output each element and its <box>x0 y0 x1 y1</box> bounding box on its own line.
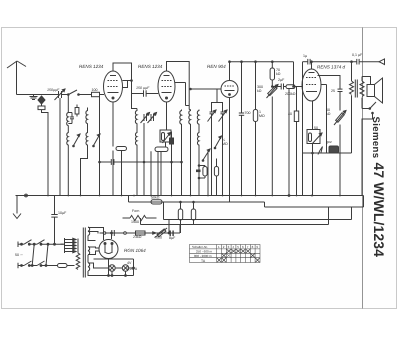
wire anode feed <box>111 232 113 239</box>
wire V2 top cap <box>167 62 190 110</box>
wire pill tap down <box>288 89 290 196</box>
wire <box>42 110 49 196</box>
table digits <box>218 245 258 249</box>
dropper resistor a <box>178 201 182 233</box>
band filter coil upper <box>135 109 137 126</box>
wire V1 top cap <box>113 63 132 81</box>
output transformer core <box>355 80 357 98</box>
padding capacitor <box>68 113 74 124</box>
tube V2 RENS1234 envelope <box>158 71 175 102</box>
resistor 40 right <box>294 87 298 196</box>
transformer core <box>83 228 85 278</box>
svg-text:150µµF: 150µµF <box>47 88 60 92</box>
wire <box>222 121 224 196</box>
anode cap 25 <box>318 76 343 111</box>
secondary winding HT <box>88 227 90 235</box>
wire <box>132 94 138 109</box>
wire cathode drop <box>99 95 101 196</box>
IF switch arrow <box>202 149 210 161</box>
svg-text:0,1 µF: 0,1 µF <box>352 53 363 57</box>
junction <box>311 61 313 63</box>
grid resistor 200k pill <box>284 85 303 89</box>
coil L3 <box>67 131 69 147</box>
svg-text:47 W/WL/1234: 47 W/WL/1234 <box>371 163 387 258</box>
wire <box>150 151 152 195</box>
resistor 1M vertical <box>253 62 257 196</box>
wire <box>212 103 223 107</box>
resistor 50k pill on bus <box>151 200 162 204</box>
smoothing cap 10uF <box>51 196 57 245</box>
svg-text:0,22 A: 0,22 A <box>127 267 138 271</box>
wire <box>132 81 135 94</box>
svg-text:RENS 1374 d: RENS 1374 d <box>317 65 346 70</box>
top bus mid <box>230 61 294 63</box>
arrow <box>148 232 157 234</box>
antenna coil L1 <box>67 111 69 127</box>
svg-text:50: 50 <box>314 126 318 130</box>
switch arrow L3 <box>73 134 80 147</box>
wire <box>302 101 304 196</box>
resistor 70k <box>270 62 274 86</box>
ground bus <box>16 195 364 197</box>
resistor 23k <box>136 231 146 235</box>
antenna coil L2 <box>86 108 88 127</box>
svg-text:40: 40 <box>288 112 292 116</box>
secondary winding rect fil <box>88 247 90 255</box>
coil L4 <box>86 131 88 147</box>
pilot lamp 2 <box>122 265 128 271</box>
junction <box>272 61 274 63</box>
trimmer capacitor 150uuF <box>55 89 66 196</box>
wire <box>181 126 183 196</box>
svg-text:4V: 4V <box>127 261 132 265</box>
top bus right w/ caps <box>303 59 381 65</box>
pill resistor 20k <box>116 147 127 151</box>
svg-text:50kΩ: 50kΩ <box>151 196 160 200</box>
svg-text:700: 700 <box>245 111 251 115</box>
wire V3 top <box>229 62 231 81</box>
svg-text:100: 100 <box>92 88 98 92</box>
junction <box>351 61 353 63</box>
AVC line <box>99 159 183 165</box>
cap 8uF <box>170 231 173 237</box>
svg-text:800 - 2000 m: 800 - 2000 m <box>194 254 212 258</box>
svg-text:25: 25 <box>331 89 335 93</box>
svg-text:MΩ: MΩ <box>222 142 228 146</box>
wire <box>87 127 89 131</box>
tube V4 internals <box>306 73 317 92</box>
wire screen tap <box>302 62 304 101</box>
wire grid drop <box>67 95 69 111</box>
grid cap 2uF <box>272 84 283 90</box>
svg-text:Schalter-Nr.: Schalter-Nr. <box>192 245 208 249</box>
wire <box>185 83 187 106</box>
wire <box>157 151 159 195</box>
headphone block gez <box>329 146 339 153</box>
quarter megohm switch arrow <box>214 136 221 149</box>
svg-text:RGN 1064: RGN 1064 <box>124 248 146 253</box>
wire <box>190 88 192 90</box>
wire right mid horizontal <box>303 152 352 154</box>
wire <box>81 147 88 196</box>
svg-text:4000: 4000 <box>154 236 162 240</box>
wire <box>143 123 145 196</box>
jack hook symbol <box>318 147 323 155</box>
svg-text:kΩ: kΩ <box>326 112 331 116</box>
tube V4 RENS1374d envelope <box>302 69 321 101</box>
switch table <box>190 245 261 263</box>
IF coil B <box>189 110 191 126</box>
transformer primary winding zigzag <box>76 239 80 270</box>
wire <box>67 147 69 196</box>
wire V2 anode <box>175 82 186 84</box>
grid leak block <box>307 101 322 196</box>
osc trimmer 2 <box>219 106 228 122</box>
wire L coil drops <box>67 127 69 131</box>
pilot lamp 1 <box>109 265 115 271</box>
mains switch row 2 <box>18 261 58 268</box>
wire <box>136 147 138 196</box>
rounded block <box>155 147 168 152</box>
wire V4 top <box>311 62 313 69</box>
arrow end of bus <box>379 59 385 65</box>
wire top bus drop <box>293 62 295 87</box>
electrolytic cap small <box>170 132 174 151</box>
osc trimmer 1 <box>208 106 217 122</box>
table X marks <box>217 249 260 262</box>
svg-text:Siemens: Siemens <box>370 117 381 159</box>
junction <box>255 61 257 63</box>
rheostat 4000 diagonal <box>156 228 168 237</box>
wire <box>211 121 213 196</box>
wire <box>128 196 130 203</box>
resistor 0.2M vertical with arrow <box>160 130 171 147</box>
wire <box>41 104 43 106</box>
wire <box>121 151 123 196</box>
decoupled bus <box>129 196 364 208</box>
ground symbol <box>13 196 21 219</box>
switch link verticals <box>21 243 56 266</box>
tone resistor 1500 zigzag <box>123 215 157 220</box>
svg-text:1500: 1500 <box>131 220 139 224</box>
output primary resistor zigzag <box>350 62 354 153</box>
title separator line <box>362 28 364 309</box>
svg-text:kΩ: kΩ <box>276 72 281 76</box>
wave switch contact b <box>79 92 104 96</box>
svg-text:2µF: 2µF <box>278 78 285 82</box>
wire <box>198 126 200 132</box>
wire <box>216 89 218 103</box>
transformer primary taps <box>61 238 77 253</box>
band filter trimmer cap 2 <box>148 113 157 124</box>
resistor on wire 216 <box>214 159 218 196</box>
svg-text:23kΩ: 23kΩ <box>133 235 142 239</box>
speaker <box>367 78 383 103</box>
band filter trimmer cap 1 <box>141 113 150 124</box>
wire <box>61 243 64 245</box>
series resistor pill <box>58 264 75 268</box>
wire <box>112 151 114 196</box>
plug circle <box>25 194 28 197</box>
wire <box>171 151 173 196</box>
wire speaker top <box>362 77 371 85</box>
wire V3 cathode <box>229 98 231 203</box>
svg-text:1µ: 1µ <box>303 54 307 58</box>
svg-text:10µF: 10µF <box>58 211 67 215</box>
secondary winding fil <box>88 263 90 271</box>
tone pot 50k diagonal <box>334 111 346 196</box>
speaker winding zigzag <box>360 77 364 109</box>
IF coil D lower <box>197 132 199 146</box>
capacitor block C <box>38 106 45 110</box>
bias resistor cluster <box>196 165 207 179</box>
rectifier internals <box>104 243 113 254</box>
wire <box>136 126 138 131</box>
svg-text:8µF: 8µF <box>169 236 176 240</box>
tube V3 internals <box>225 86 235 95</box>
svg-text:RENS 1234: RENS 1234 <box>79 64 104 69</box>
svg-text:MΩ: MΩ <box>259 114 265 118</box>
svg-text:200kΩ: 200kΩ <box>285 92 296 96</box>
svg-text:150 µµF: 150 µµF <box>136 86 150 90</box>
earth hatch <box>30 95 38 100</box>
lightning arrester diamond <box>38 96 45 104</box>
wire <box>198 146 200 196</box>
svg-text:REN 904: REN 904 <box>207 64 226 69</box>
wire <box>169 220 180 234</box>
wire <box>164 202 352 220</box>
wire V3 grid <box>191 88 222 90</box>
capacitor 700uuF <box>239 62 244 196</box>
tube V3 REN904 envelope <box>221 81 238 98</box>
wire rect fil <box>88 247 99 255</box>
wire V1 cathode <box>112 102 114 147</box>
wire <box>141 207 329 225</box>
antenna <box>7 61 26 95</box>
wire antenna horizontal <box>17 94 57 96</box>
svg-text:250 - 600 m: 250 - 600 m <box>196 250 213 254</box>
bus junction dots <box>47 195 341 197</box>
tube V1 internals <box>108 76 119 100</box>
cap on mains row <box>112 230 115 236</box>
wire V2 cathode <box>166 102 168 130</box>
wave switch contact a <box>64 90 80 95</box>
svg-text:50 ∽: 50 ∽ <box>15 253 23 257</box>
dropper resistor b <box>191 201 195 224</box>
resistor 1.5k <box>75 105 79 117</box>
lamp wiring <box>88 259 134 277</box>
svg-text:Fern: Fern <box>132 209 139 213</box>
junction <box>272 86 274 88</box>
mains row AC line <box>100 232 181 235</box>
tube V1 RENS1234 envelope <box>104 71 123 102</box>
switch arrow L4 <box>93 134 100 147</box>
wire <box>207 151 209 196</box>
coupling capacitor 150uuF <box>134 90 158 96</box>
junction <box>168 232 170 234</box>
potentiometer 300k diagonal <box>267 85 279 196</box>
speaker switch <box>362 102 376 196</box>
junction <box>241 61 243 63</box>
wire <box>190 126 192 196</box>
svg-text:RENS 1234: RENS 1234 <box>138 64 163 69</box>
wire HT to rectifier <box>88 228 104 241</box>
rectifier RGN1064 envelope <box>99 240 118 259</box>
mains switch row 1 <box>18 240 61 247</box>
IF coil C <box>197 110 199 126</box>
wire V1 anode <box>123 80 132 82</box>
svg-text:kΩ: kΩ <box>257 89 262 93</box>
tube V2 internals <box>162 76 172 100</box>
band filter coil lower <box>135 131 137 147</box>
IF coil A <box>180 110 182 126</box>
svg-text:gez: gez <box>326 140 332 144</box>
